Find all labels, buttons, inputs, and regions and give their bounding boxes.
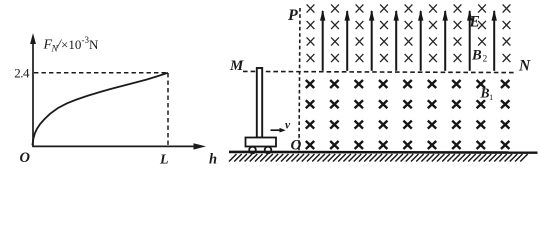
svg-text:1: 1 — [489, 92, 493, 102]
svg-text:B: B — [480, 86, 490, 101]
label B1 — [480, 86, 494, 103]
svg-text:E: E — [469, 14, 480, 31]
upper field x grid (into page) — [307, 4, 511, 62]
label B2 — [471, 48, 488, 65]
ground line — [229, 151, 538, 154]
svg-text:v: v — [285, 120, 291, 132]
y-axis label FN/x10^-3 N — [43, 35, 100, 55]
velocity arrow v — [271, 128, 286, 133]
svg-text:2: 2 — [483, 55, 488, 65]
y-axis — [30, 33, 36, 147]
svg-text:P: P — [287, 7, 298, 24]
svg-text:N: N — [518, 58, 531, 75]
svg-text:B: B — [471, 48, 482, 64]
x-axis — [32, 143, 206, 149]
conducting rod — [257, 68, 262, 138]
svg-text:M: M — [229, 58, 244, 74]
svg-text:′: ′ — [298, 134, 301, 146]
svg-text:2.4: 2.4 — [14, 66, 30, 81]
svg-text:×10: ×10 — [61, 37, 81, 52]
wheel left — [249, 147, 256, 154]
dashed vertical at L — [167, 73, 169, 146]
ground hatching — [229, 154, 528, 162]
svg-text:O: O — [20, 150, 31, 166]
curve FN(h) — [32, 73, 168, 146]
dashed level 2.4 — [34, 72, 168, 74]
svg-text:L: L — [159, 153, 169, 168]
vertical dashed boundary P-O' — [299, 8, 300, 151]
dashed line MN — [243, 71, 516, 72]
electric field arrows E — [320, 10, 497, 71]
wheel right — [265, 147, 272, 154]
svg-text:N: N — [89, 37, 99, 52]
svg-text:h: h — [209, 152, 217, 168]
lower field x grid B1 (into page) — [306, 80, 510, 149]
cart body — [246, 138, 277, 147]
